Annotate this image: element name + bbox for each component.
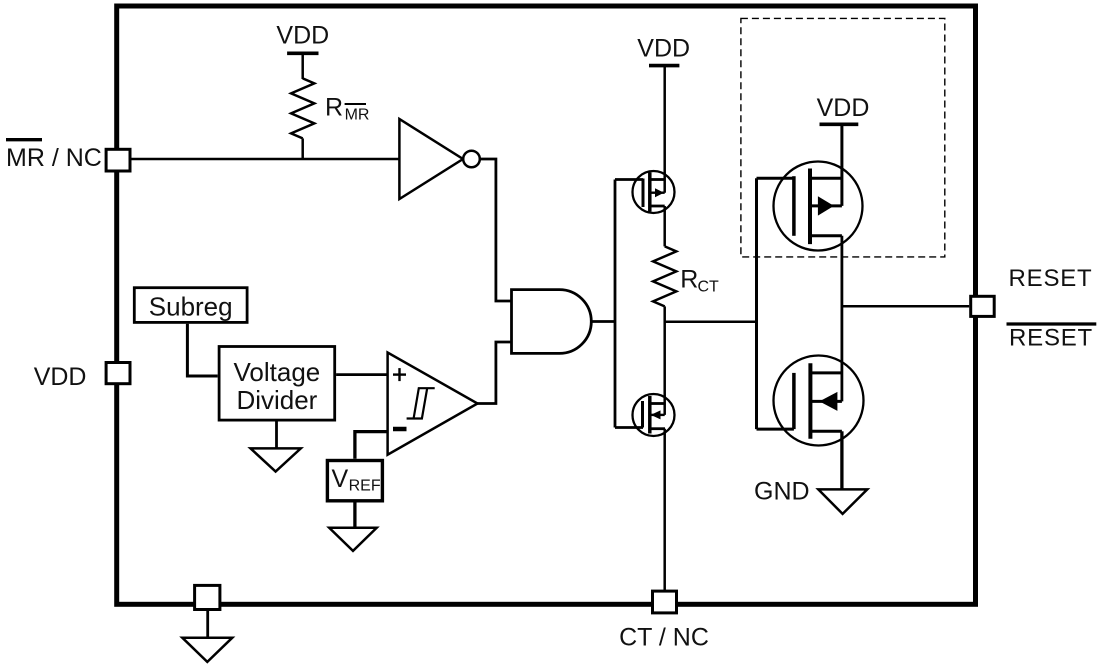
pin MR/NC (106, 149, 130, 171)
wire Q2 source to ground (840, 431, 843, 489)
wire MR/NC input net (118, 158, 399, 161)
wire M1 source to RCT (663, 206, 666, 246)
ground bottom-left (182, 638, 232, 662)
ground under Voltage Divider (251, 448, 301, 471)
wire RCT bottom to M2 drain (663, 306, 666, 415)
wire to M2 gate (615, 426, 643, 429)
transistor Q1 PMOS big (774, 162, 863, 251)
ground symbol GND (818, 489, 867, 514)
wire to Q1 gate (757, 177, 794, 180)
svg-text:RESET: RESET (1009, 324, 1093, 351)
wire AND output to gate net (591, 320, 615, 323)
inverter U1 (399, 119, 463, 199)
ground under VREF (329, 528, 377, 551)
wire Subreg to Voltage Divider (187, 324, 217, 376)
resistor RMR (291, 78, 314, 138)
hysteresis symbol (407, 388, 428, 418)
block VREF (327, 461, 382, 501)
svg-text:MR: MR (345, 107, 370, 124)
pin - label (393, 427, 407, 432)
svg-text:CT: CT (698, 279, 720, 296)
wire Voltage Divider to ground (275, 422, 278, 449)
wire to M1 gate (615, 178, 643, 181)
pin GND bottom-left (195, 585, 220, 609)
wire VDD to RMR (301, 53, 304, 79)
svg-text:RESET: RESET (1009, 265, 1093, 292)
wire VDD to M1 drain (663, 66, 666, 193)
AND gate U3 (512, 290, 592, 354)
svg-text:VDD: VDD (817, 94, 870, 122)
pin label RESET-bar with overline (1007, 322, 1097, 325)
svg-text:MR / NC: MR / NC (6, 144, 102, 172)
wire VREF to ground (353, 503, 356, 528)
svg-text:GND: GND (754, 477, 810, 505)
comparator U2 (388, 353, 478, 455)
wire node to big FET gates (665, 321, 757, 324)
wire RMR to MR net (301, 138, 304, 159)
wire Q1 drain to output node and Q2 (841, 236, 844, 402)
wire VDD to Q1 drain (840, 124, 843, 206)
wire big gate drive vertical (755, 178, 758, 429)
IC boundary box (117, 6, 976, 604)
transistor Q2 NMOS big (774, 356, 864, 446)
svg-text:REF: REF (349, 478, 381, 495)
wire gate drive vertical small FETs (614, 180, 617, 428)
pin CT/NC (653, 591, 677, 613)
svg-text:VDD: VDD (637, 35, 690, 63)
svg-text:Divider: Divider (236, 385, 317, 415)
wire M2 source to CT pin (663, 429, 666, 592)
transistor M1 PMOS small (633, 171, 675, 213)
dashed option box (741, 18, 945, 257)
svg-text:V: V (332, 465, 349, 493)
svg-text:Voltage: Voltage (234, 357, 321, 387)
wire comparator output to AND input B (478, 342, 512, 404)
wire output node to RESET pin (842, 305, 969, 308)
wire inverter output to AND input A (480, 159, 512, 301)
resistor RCT (653, 246, 676, 306)
pin RESET (971, 296, 995, 316)
wire Voltage Divider to comparator + (336, 373, 388, 376)
block Subreg (134, 288, 247, 323)
wire to Q2 gate (757, 428, 794, 431)
svg-text:R: R (325, 93, 343, 121)
wire comparator minus to VREF (355, 432, 388, 459)
svg-text:CT / NC: CT / NC (619, 624, 709, 652)
svg-text:VDD: VDD (276, 21, 329, 49)
svg-text:R: R (680, 266, 698, 294)
svg-text:VDD: VDD (34, 363, 87, 391)
pin + label (393, 373, 406, 375)
block Voltage Divider (219, 347, 335, 421)
svg-text:Subreg: Subreg (149, 292, 233, 322)
pin VDD left (106, 363, 130, 384)
transistor M2 NMOS small (633, 394, 675, 436)
wire pin to ground (206, 611, 209, 638)
